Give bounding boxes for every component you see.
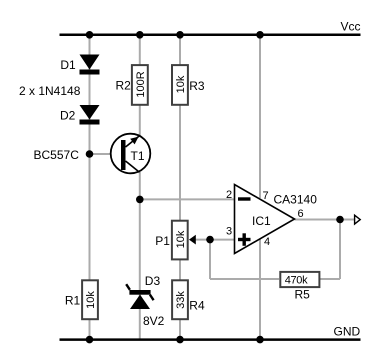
svg-text:CA3140: CA3140 — [274, 193, 318, 207]
svg-text:R4: R4 — [189, 299, 205, 313]
svg-text:T1: T1 — [131, 149, 145, 163]
svg-text:2 x 1N4148: 2 x 1N4148 — [19, 84, 81, 98]
svg-text:2: 2 — [226, 189, 232, 201]
svg-text:6: 6 — [298, 208, 304, 220]
svg-text:R3: R3 — [189, 79, 205, 93]
svg-text:8V2: 8V2 — [143, 314, 165, 328]
svg-text:100R: 100R — [135, 71, 147, 97]
svg-text:3: 3 — [226, 226, 232, 238]
svg-text:D3: D3 — [145, 274, 161, 288]
svg-text:4: 4 — [264, 236, 270, 248]
svg-text:IC1: IC1 — [252, 214, 271, 228]
svg-text:R5: R5 — [295, 288, 311, 302]
svg-text:GND: GND — [334, 325, 361, 339]
svg-text:470k: 470k — [285, 275, 308, 287]
svg-text:10k: 10k — [175, 75, 187, 93]
svg-text:33k: 33k — [175, 291, 187, 309]
svg-text:R1: R1 — [65, 293, 81, 307]
svg-text:D1: D1 — [60, 58, 76, 72]
svg-text:BC557C: BC557C — [34, 148, 80, 162]
svg-text:10k: 10k — [175, 230, 187, 248]
svg-text:7: 7 — [263, 190, 269, 202]
svg-text:10k: 10k — [85, 291, 97, 309]
svg-text:R2: R2 — [116, 78, 132, 92]
svg-text:D2: D2 — [60, 109, 76, 123]
svg-text:Vcc: Vcc — [341, 20, 361, 34]
svg-text:P1: P1 — [155, 234, 170, 248]
